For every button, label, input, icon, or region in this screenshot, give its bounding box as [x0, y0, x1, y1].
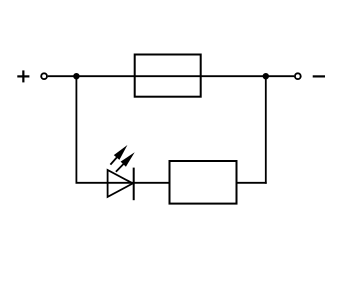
wire: top rail from left terminal to right terminal — [48, 75, 294, 77]
left terminal (open circle) — [41, 73, 47, 79]
wire: box right side to right vertical riser — [237, 182, 267, 184]
plus terminal label + — [17, 70, 29, 82]
LED light-emission arrow 2 (lower right) — [116, 152, 135, 171]
resistor/driver box R1 — [170, 161, 237, 204]
LED D1 cathode bar — [133, 168, 135, 201]
fuse F1 (rectangle with rail passing through) — [135, 55, 201, 97]
node: right junction dot — [263, 73, 269, 79]
LED D1 anode triangle — [108, 170, 133, 197]
right terminal (open circle) — [295, 73, 301, 79]
wire: bottom branch, left junction to LED and through to box — [76, 182, 170, 184]
minus terminal label - — [313, 75, 325, 77]
LED light-emission arrow 1 (upper left) — [110, 145, 127, 165]
wire: right vertical riser up to right junction — [265, 76, 267, 184]
wire: left vertical drop from left junction — [75, 76, 77, 183]
node: left junction dot — [73, 73, 79, 79]
